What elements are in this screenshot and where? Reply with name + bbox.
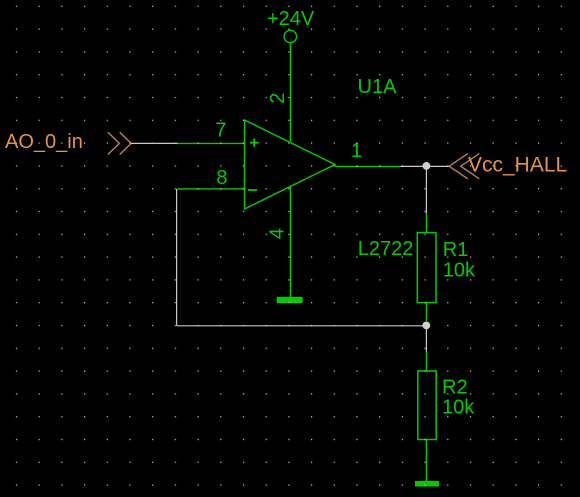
net connector AO_0_in chevron bbox=[108, 132, 131, 154]
wire junction down to R1 bbox=[425, 166, 427, 213]
net connector Vcc_HALL chevron bbox=[449, 154, 479, 179]
wire AO_0_in net bbox=[131, 142, 177, 144]
op-amp U1A triangle bbox=[245, 120, 336, 209]
op-amp pin 8 wire bbox=[178, 188, 245, 190]
op-amp + input mark bbox=[250, 138, 259, 147]
op-amp pin 7 wire bbox=[178, 142, 245, 144]
wire junction2 down to R2 bbox=[425, 329, 427, 352]
power supply +24V symbol bbox=[267, 8, 315, 43]
op-amp pin 1 output wire bbox=[335, 165, 401, 167]
feedback wire horizontal bbox=[177, 325, 427, 327]
ground symbol below op-amp bbox=[277, 297, 303, 303]
junction at output node bbox=[423, 162, 431, 170]
wire output net to junction and connector bbox=[401, 165, 450, 167]
ground symbol below R2 bbox=[415, 481, 439, 487]
op-amp pin 4 wire bbox=[289, 187, 291, 297]
wire +24V to op-amp pin 2 bbox=[289, 43, 291, 142]
junction at feedback node bbox=[422, 322, 430, 330]
resistor R2 pin bottom stub and wire to ground bbox=[425, 440, 427, 482]
resistor R1 pin bottom stub bbox=[425, 303, 427, 321]
op-amp - input mark bbox=[248, 189, 257, 191]
resistor R2 pin top stub bbox=[425, 352, 427, 372]
resistor R2 body bbox=[418, 371, 436, 440]
resistor R1 pin top stub bbox=[425, 213, 427, 233]
feedback wire vertical bbox=[176, 189, 178, 326]
resistor R1 body bbox=[417, 233, 436, 303]
